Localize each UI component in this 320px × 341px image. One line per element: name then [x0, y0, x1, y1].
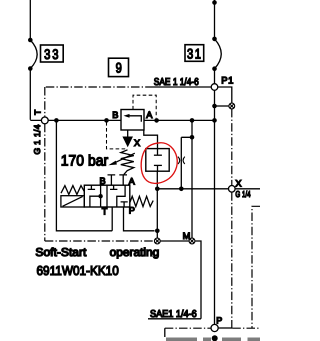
balloon 31: [185, 45, 204, 62]
svg-text:X: X: [235, 179, 241, 189]
U1 drain dashed line: [107, 122, 128, 149]
svg-text:P: P: [216, 315, 222, 325]
gray component edge: [166, 338, 260, 341]
wire A line: [144, 119, 215, 121]
highlight red ellipse: [141, 143, 177, 184]
node main/test branch: [212, 104, 217, 109]
V3 spring right: [130, 196, 153, 206]
node below P: [212, 335, 218, 341]
node A-line/line2 junction: [190, 118, 195, 123]
V3 port bar B: [108, 175, 116, 185]
node V3 left square: [98, 194, 102, 198]
node hose31 bottom: [212, 66, 217, 71]
node hose31 top: [212, 37, 217, 42]
wire M corner down: [195, 241, 201, 319]
node P/M junction: [155, 229, 160, 234]
port T circle: [41, 117, 48, 124]
wire X line: [157, 188, 260, 190]
boundary bottom2 corner down: [164, 328, 166, 337]
svg-text:9: 9: [116, 59, 122, 75]
svg-text:31: 31: [187, 45, 203, 61]
V2 bottom stem: [157, 165, 159, 171]
hose 31 arc: [215, 39, 222, 69]
boundary left dash-dot: [44, 87, 46, 241]
wire shutoff output down: [156, 171, 158, 238]
node A line main junction: [212, 118, 217, 123]
svg-text:G 1 1/4: G 1 1/4: [32, 124, 42, 154]
boundary bottom dash-dot: [45, 240, 155, 242]
wire line2 down to M test: [191, 120, 193, 238]
test point M2: [189, 238, 195, 244]
orifice restrictor: [178, 157, 185, 164]
U1 pilot dashed line: [133, 95, 156, 118]
test point at P1: [229, 103, 235, 109]
hose 33 arc: [30, 40, 37, 69]
U1 drain triangle: [122, 137, 133, 148]
svg-text:170 bar: 170 bar: [61, 152, 108, 169]
wire B supply line: [48, 119, 121, 121]
boundary bottom2 dash-dot: [165, 327, 260, 329]
svg-text:X: X: [134, 138, 140, 148]
valve U1 pressure reducing body: [121, 110, 144, 131]
port X circle: [229, 186, 236, 193]
V3 right square P-A path: [117, 185, 125, 207]
wire valve P port down: [124, 207, 155, 231]
port P circle bottom: [211, 324, 218, 331]
svg-text:SAE 1 1/4-6: SAE 1 1/4-6: [154, 77, 199, 88]
V3 body: [84, 185, 130, 207]
svg-text:6911W01-KK10: 6911W01-KK10: [37, 263, 119, 278]
valve V2 shut-off body: [146, 149, 169, 172]
pilot line dash-dot to X port: [231, 109, 233, 328]
node top junction: [212, 0, 217, 5]
wire P to pilot junction: [218, 327, 232, 329]
V2 inlet from U1: [144, 130, 158, 155]
svg-text:P1: P1: [221, 75, 234, 86]
wire left riser from top: [29, 0, 31, 40]
wire riser into port P1: [214, 69, 216, 84]
V3 left square blocked port: [88, 185, 95, 189]
wire left riser to T port: [30, 69, 41, 121]
U1 drain stub: [127, 130, 129, 137]
node shutoff/X-line junction: [155, 187, 160, 192]
svg-text:T: T: [102, 207, 108, 217]
svg-text:G 1/4: G 1/4: [235, 189, 250, 199]
V3 solenoid box: [61, 196, 84, 207]
node orifice line junction: [179, 187, 184, 192]
boundary top dash-dot: [46, 86, 150, 88]
V2 bottom plug bar: [154, 164, 162, 166]
test point M1: [154, 238, 160, 244]
wire main pressure line down: [214, 90, 216, 324]
wire P1 branch to test point: [218, 87, 232, 103]
node B line branch down: [54, 118, 59, 123]
node A pilot junction: [154, 118, 159, 123]
V3 left square B-T path: [90, 185, 101, 207]
wire valve T port riser: [111, 207, 113, 231]
svg-text:A: A: [146, 110, 153, 120]
wire branch to test point X: [215, 105, 230, 107]
V3 T stub: [103, 207, 105, 210]
U1 adjustment arrow: [113, 153, 135, 164]
svg-text:SAE1 1/4-6: SAE1 1/4-6: [150, 309, 197, 320]
node hose33 bottom: [28, 66, 33, 71]
V3 spring left: [61, 186, 84, 195]
node line2/orifice junction: [190, 135, 195, 140]
svg-text:Soft-Start: Soft-Start: [35, 247, 87, 259]
wire SAE label line: [150, 86, 211, 88]
svg-text:operating: operating: [110, 247, 160, 259]
svg-text:B: B: [100, 176, 106, 186]
wire between test points: [160, 240, 189, 242]
node hose33 top: [28, 38, 33, 43]
V2 top plug bar: [154, 154, 162, 156]
svg-text:B: B: [112, 110, 118, 120]
wire T return down-left: [56, 120, 112, 230]
svg-text:P: P: [129, 206, 135, 216]
wire orifice branch: [181, 137, 192, 189]
V3 port bar A: [119, 175, 127, 185]
boundary right dash-dot: [252, 206, 260, 328]
port P1 circle: [211, 84, 218, 91]
svg-text:T: T: [33, 110, 43, 115]
wire right riser from top: [214, 0, 216, 39]
V3 right square blocked bottom: [121, 202, 128, 207]
U1 spring: [121, 150, 134, 175]
svg-text:33: 33: [44, 46, 60, 62]
U1 internal flow arrow: [128, 116, 142, 122]
balloon 9: [109, 58, 129, 76]
label SAE1 line: [148, 318, 201, 320]
node B line drain branch: [104, 118, 109, 123]
balloon 33: [41, 45, 64, 62]
V3 right square blocked port: [110, 185, 117, 189]
